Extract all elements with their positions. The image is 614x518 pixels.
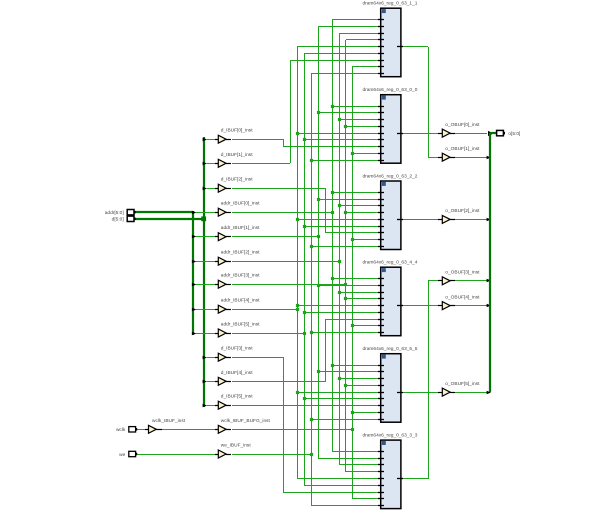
svg-text:d_IBUF[1]_inst: d_IBUF[1]_inst (221, 152, 253, 158)
svg-text:we_IBUF_inst: we_IBUF_inst (221, 443, 252, 449)
svg-text:dram64x6_reg_0_63_1_1: dram64x6_reg_0_63_1_1 (362, 1, 417, 7)
svg-text:addr_IBUF[1]_inst: addr_IBUF[1]_inst (221, 225, 260, 231)
svg-text:o[5:0]: o[5:0] (508, 131, 520, 137)
svg-text:d_IBUF[4]_inst: d_IBUF[4]_inst (221, 370, 253, 376)
svg-text:d_IBUF[5]_inst: d_IBUF[5]_inst (221, 394, 253, 400)
svg-text:dram64x6_reg_0_63_0_0: dram64x6_reg_0_63_0_0 (362, 87, 417, 93)
svg-text:o_OBUF[3]_inst: o_OBUF[3]_inst (445, 270, 480, 276)
svg-text:addr_IBUF[0]_inst: addr_IBUF[0]_inst (221, 201, 260, 207)
svg-text:addr_IBUF[5]_inst: addr_IBUF[5]_inst (221, 322, 260, 328)
svg-text:d_IBUF[0]_inst: d_IBUF[0]_inst (221, 128, 253, 134)
svg-text:dram64x6_reg_0_63_2_2: dram64x6_reg_0_63_2_2 (362, 173, 417, 179)
svg-text:addr_IBUF[4]_inst: addr_IBUF[4]_inst (221, 298, 260, 304)
svg-text:wclk_IBUF_inst: wclk_IBUF_inst (152, 418, 186, 424)
svg-text:wclk: wclk (116, 427, 126, 433)
svg-text:dram64x6_reg_0_63_5_5: dram64x6_reg_0_63_5_5 (362, 346, 417, 352)
svg-text:d_IBUF[3]_inst: d_IBUF[3]_inst (221, 346, 253, 352)
svg-text:d[5:0]: d[5:0] (112, 217, 124, 223)
svg-text:we: we (119, 453, 125, 458)
svg-text:addr[5:0]: addr[5:0] (105, 210, 124, 216)
svg-text:o_OBUF[5]_inst: o_OBUF[5]_inst (445, 381, 480, 387)
svg-text:addr_IBUF[2]_inst: addr_IBUF[2]_inst (221, 250, 260, 256)
svg-text:o_OBUF[2]_inst: o_OBUF[2]_inst (445, 208, 480, 214)
svg-text:wclk_IBUF_BUFG_inst: wclk_IBUF_BUFG_inst (221, 418, 271, 424)
svg-text:o_OBUF[4]_inst: o_OBUF[4]_inst (445, 294, 480, 300)
svg-text:dram64x6_reg_0_63_3_3: dram64x6_reg_0_63_3_3 (362, 432, 417, 438)
svg-text:d_IBUF[2]_inst: d_IBUF[2]_inst (221, 177, 253, 183)
svg-text:dram64x6_reg_0_63_4_4: dram64x6_reg_0_63_4_4 (362, 260, 417, 266)
svg-text:o_OBUF[0]_inst: o_OBUF[0]_inst (445, 122, 480, 128)
svg-text:o_OBUF[1]_inst: o_OBUF[1]_inst (445, 146, 480, 152)
svg-text:addr_IBUF[3]_inst: addr_IBUF[3]_inst (221, 273, 260, 279)
